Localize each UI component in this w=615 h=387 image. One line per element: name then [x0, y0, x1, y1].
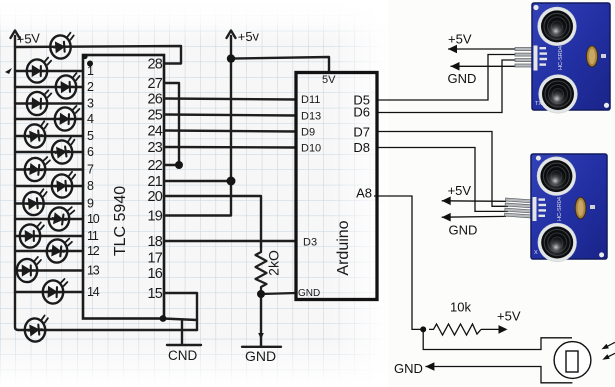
wire pin3	[15, 102, 83, 104]
arrow sensor2 +5V	[442, 197, 451, 206]
wire pin20 to resistor	[164, 196, 261, 248]
svg-text:GND: GND	[449, 223, 478, 238]
svg-text:28: 28	[147, 57, 162, 73]
sensor2 mount holes	[536, 156, 541, 161]
svg-text:10: 10	[87, 212, 100, 226]
svg-text:GND: GND	[448, 71, 477, 86]
wire pin14	[15, 291, 83, 293]
svg-text:TLC 5940: TLC 5940	[112, 186, 129, 256]
svg-text:D7: D7	[353, 125, 370, 140]
svg-text:11: 11	[87, 229, 99, 243]
svg-text:+5V: +5V	[448, 32, 472, 47]
+5V branch to arduino 5V	[231, 57, 329, 73]
svg-text:23: 23	[147, 140, 162, 156]
svg-text:13: 13	[87, 264, 100, 278]
+5V rail left	[15, 36, 18, 330]
wire pin9	[15, 202, 83, 204]
wire resistor to arduino GND	[261, 293, 296, 294]
svg-text:18: 18	[147, 234, 162, 250]
junction dot 10k	[420, 326, 426, 332]
GND mid symbol	[242, 294, 281, 347]
ultrasonic sensor module 2 (bottom)	[504, 154, 607, 262]
wire sensor2 +5V	[442, 200, 506, 203]
svg-text:HC-SR04: HC-SR04	[557, 197, 563, 221]
svg-text:D11: D11	[301, 94, 320, 106]
printed arrowheads	[425, 45, 507, 371]
LED L9	[22, 189, 48, 216]
svg-text:A8: A8	[356, 186, 372, 201]
svg-text:14: 14	[87, 285, 100, 299]
+5V arrowhead left	[11, 31, 20, 39]
LED L8	[51, 172, 77, 199]
svg-text:5V: 5V	[322, 74, 336, 86]
svg-text:22: 22	[147, 158, 162, 174]
svg-text:19: 19	[147, 209, 162, 225]
sensor1 transducer top	[537, 7, 576, 46]
wire sensor1 GND	[451, 65, 517, 67]
resistor 2kO	[256, 248, 267, 294]
wire D6 to sensor1 echo	[377, 60, 516, 113]
wire D7 to sensor2 trig	[377, 132, 508, 207]
wire bottom LED to pin15	[18, 329, 197, 331]
sensor2 header + silk labels	[533, 197, 547, 221]
GND left symbol	[167, 344, 201, 346]
svg-text:Arduino: Arduino	[335, 220, 352, 275]
sensor2 transducer bottom	[538, 223, 577, 262]
sensor2 pins	[504, 198, 532, 218]
TLC5940 body	[83, 55, 164, 319]
LED L13	[17, 257, 41, 282]
small arrow A mark	[5, 68, 12, 74]
wire pin24 to D9	[164, 131, 296, 132]
wire pin13	[15, 269, 83, 271]
svg-text:17: 17	[147, 251, 162, 267]
sensor1 mount holes	[533, 5, 538, 10]
stub pin27 to vertical	[164, 83, 179, 165]
+5V mid rail	[164, 36, 231, 216]
svg-text:CND: CND	[168, 348, 197, 363]
svg-text:GND: GND	[245, 348, 276, 364]
LED L28	[49, 33, 75, 60]
LED L2	[55, 73, 80, 99]
wire pin1	[15, 70, 83, 72]
LDR photocell	[554, 342, 591, 379]
wire 10k to +5V	[481, 328, 500, 330]
LED L15	[24, 315, 51, 342]
arduino pin labels handwritten	[298, 74, 336, 299]
GND stub left	[181, 320, 183, 344]
wire sensor2 GND	[442, 215, 506, 218]
LED L10	[47, 204, 74, 232]
svg-text:27: 27	[147, 76, 162, 92]
wire pin8	[15, 185, 83, 187]
svg-text:26: 26	[147, 92, 162, 108]
resistor 10k	[429, 324, 481, 335]
sensor1 PCB	[532, 3, 610, 110]
right-side TLC wires	[163, 31, 329, 345]
wire pin28 top	[15, 46, 181, 64]
LED L14	[42, 278, 67, 304]
wire A8 down	[374, 196, 423, 329]
arrow sensor1 GND	[451, 62, 460, 71]
schematic ink	[11, 31, 198, 331]
wire LDR top	[423, 329, 572, 349]
svg-text:+5V: +5V	[16, 30, 41, 47]
stub pin21 to +5V rail	[164, 180, 231, 182]
sensor2 crystal	[575, 197, 586, 219]
junction dots	[82, 54, 265, 322]
svg-text:+5V: +5V	[448, 183, 472, 198]
LED L7	[24, 155, 50, 182]
ultrasonic sensor module 1 (top)	[515, 3, 610, 114]
sensor1 header + silk labels	[534, 46, 548, 71]
wire pin11	[15, 235, 83, 237]
wire pin12	[15, 250, 83, 252]
LED L1	[27, 57, 52, 82]
wire LDR bottom / GND	[425, 367, 572, 383]
printed labels	[394, 32, 521, 376]
printed wires right side	[374, 49, 572, 383]
arrow sensor1 +5V	[448, 45, 457, 54]
wire pin26 to D11	[164, 99, 296, 100]
svg-text:X: X	[534, 250, 538, 256]
LED L5	[23, 121, 50, 149]
arrow sensor2 GND	[442, 213, 451, 222]
wire pin5	[15, 135, 83, 137]
LED L6	[50, 137, 77, 165]
svg-text:HC-SR04: HC-SR04	[558, 46, 564, 70]
arduino pin labels printed	[353, 93, 372, 201]
svg-text:D8: D8	[353, 140, 370, 155]
svg-text:D6: D6	[353, 105, 370, 120]
svg-text:D10: D10	[301, 143, 321, 155]
svg-text:GND: GND	[298, 288, 320, 299]
wire D8 to sensor2 echo	[377, 148, 508, 212]
svg-text:15: 15	[147, 286, 162, 302]
wire pin10	[15, 218, 83, 220]
pin numbers left	[87, 64, 100, 299]
wire D5 to sensor1 trig	[377, 55, 516, 101]
svg-text:16: 16	[147, 266, 162, 282]
svg-text:D9: D9	[301, 127, 315, 139]
pin numbers right	[147, 57, 162, 303]
chip bottom edge extension	[163, 319, 197, 321]
Arduino body	[296, 73, 377, 300]
wire pin7	[15, 168, 83, 170]
svg-text:GND: GND	[394, 361, 423, 376]
wire pin18 to D3	[164, 240, 296, 242]
svg-text:D13: D13	[301, 111, 321, 123]
sensor2 PCB	[531, 154, 607, 259]
light arrows at LDR	[602, 342, 615, 359]
svg-text:20: 20	[147, 189, 162, 205]
wire pin4	[15, 118, 83, 120]
LED L11	[20, 222, 44, 247]
svg-text:TX: TX	[535, 101, 542, 107]
wire pin6	[15, 151, 83, 153]
svg-text:+5V: +5V	[497, 309, 521, 324]
wire pin23 to D10	[164, 146, 296, 149]
svg-text:+5v: +5v	[237, 28, 260, 44]
sensor1 pins	[515, 48, 533, 68]
svg-text:24: 24	[147, 124, 162, 140]
wire sensor1 +5V	[448, 48, 516, 50]
+5V mid arrowhead	[227, 31, 236, 39]
svg-text:12: 12	[87, 244, 100, 258]
svg-text:21: 21	[147, 174, 162, 190]
arrow GND bottom	[425, 362, 434, 371]
svg-text:D3: D3	[303, 237, 317, 249]
LED L3	[26, 90, 51, 116]
arrow +5V right of 10k	[499, 325, 508, 334]
wire pin15 down	[164, 293, 197, 330]
svg-text:2kO: 2kO	[266, 250, 282, 276]
svg-text:10k: 10k	[450, 300, 471, 315]
LED L12	[46, 237, 72, 264]
LED array	[17, 33, 81, 343]
LED L4	[54, 105, 79, 131]
sensor1 transducer bottom	[538, 74, 577, 113]
stub pin22	[164, 164, 179, 166]
sensor1 crystal	[586, 46, 597, 67]
sensor2 transducer top	[537, 157, 576, 196]
wire pin2	[15, 86, 83, 88]
wire pin25 to D13	[164, 115, 296, 116]
svg-text:25: 25	[147, 108, 162, 124]
